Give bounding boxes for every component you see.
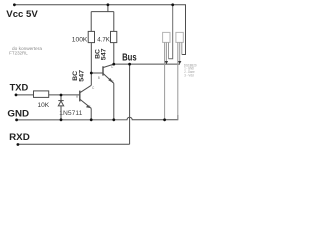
junction R1 Q2 base <box>90 72 93 75</box>
wire resistor branch <box>107 5 109 12</box>
wire Q2 base <box>91 72 103 74</box>
wire Bus line <box>114 63 180 65</box>
sensor U2 pin3 leg <box>181 42 183 54</box>
wire 10K to Q1 base <box>49 94 80 96</box>
svg-text:Vcc 5V: Vcc 5V <box>6 9 38 19</box>
wire diode top <box>60 95 62 101</box>
transistor Q2 collector <box>103 64 114 67</box>
sensor U2 pin2 leg to Bus <box>179 42 181 61</box>
junction rail branch <box>107 3 110 6</box>
svg-text:100K: 100K <box>72 36 88 43</box>
junction Bus left <box>112 63 115 66</box>
sensor U1 pin1 leg to GND <box>164 42 166 119</box>
transistor Q2 emitter arrowhead <box>108 78 114 83</box>
junction 10K diode <box>60 94 63 97</box>
svg-text:4.7K: 4.7K <box>97 36 110 43</box>
sensor U1 pin2 leg to Bus <box>165 42 167 61</box>
junction diode GND <box>60 118 63 121</box>
svg-text:3 - Vdd: 3 - Vdd <box>184 74 194 78</box>
junction rail sensors <box>171 3 174 6</box>
junction TXD terminal <box>15 94 18 97</box>
junction GND terminal <box>15 119 18 122</box>
svg-text:FT232RL: FT232RL <box>9 50 28 55</box>
wire to R2 <box>113 12 115 32</box>
transistor Q1 emitter <box>80 99 91 108</box>
wire R2 bottom to Bus <box>113 43 115 65</box>
junction Vcc terminal <box>13 3 16 6</box>
transistor Q2 emitter <box>103 74 114 84</box>
diode D1 cathode bar <box>58 100 63 102</box>
junction Q1 emitter GND <box>90 118 93 121</box>
wire Vcc to U1 pin3 <box>169 5 173 59</box>
transistor Q1 bar <box>79 91 81 102</box>
junction Bus RXD <box>128 63 131 66</box>
svg-text:GND: GND <box>7 108 29 118</box>
wire Bus to RXD vertical <box>129 64 131 144</box>
svg-text:B: B <box>76 95 78 99</box>
wire to R1 <box>90 12 92 32</box>
junction sensor U1 GND <box>163 118 166 121</box>
wire branch horizontal <box>91 11 114 13</box>
diode D1 triangle <box>58 101 63 106</box>
junction Q2 emitter GND <box>112 118 115 121</box>
svg-text:1N5711: 1N5711 <box>59 110 83 117</box>
resistor R3 10K <box>34 91 49 98</box>
transistor Q2 bar <box>102 66 104 75</box>
sensor U2 pin1 leg to GND <box>177 42 179 119</box>
wire Q1 emitter to GND <box>90 108 92 120</box>
transistor Q1 collector <box>80 85 91 92</box>
wire RXD line <box>18 143 130 145</box>
wire diode bottom <box>60 106 62 120</box>
resistor R1 100K <box>88 31 94 42</box>
sensor U1 package <box>163 32 170 42</box>
svg-text:RXD: RXD <box>9 132 30 142</box>
resistor R2 4.7K <box>111 31 117 42</box>
wire R1 bottom to Q1 collector <box>90 43 92 86</box>
svg-text:10K: 10K <box>38 102 50 109</box>
sensor U2 package <box>176 32 183 42</box>
svg-text:B: B <box>98 76 100 80</box>
svg-text:TXD: TXD <box>10 82 29 92</box>
svg-text:547: 547 <box>100 48 107 60</box>
svg-text:Bus: Bus <box>122 53 137 64</box>
wire TXD line <box>16 94 34 96</box>
arrow U1 data to Bus <box>165 61 168 64</box>
junction RXD terminal <box>17 143 20 146</box>
arrow U2 data to Bus <box>178 61 181 64</box>
wire Q2 emitter to GND <box>113 83 115 120</box>
svg-text:547: 547 <box>78 69 85 81</box>
transistor Q1 emitter arrowhead <box>86 105 91 108</box>
sensor U1 pin3 leg <box>168 42 170 58</box>
wire GND line with hop <box>17 115 178 120</box>
wire Vcc rail <box>14 5 185 55</box>
